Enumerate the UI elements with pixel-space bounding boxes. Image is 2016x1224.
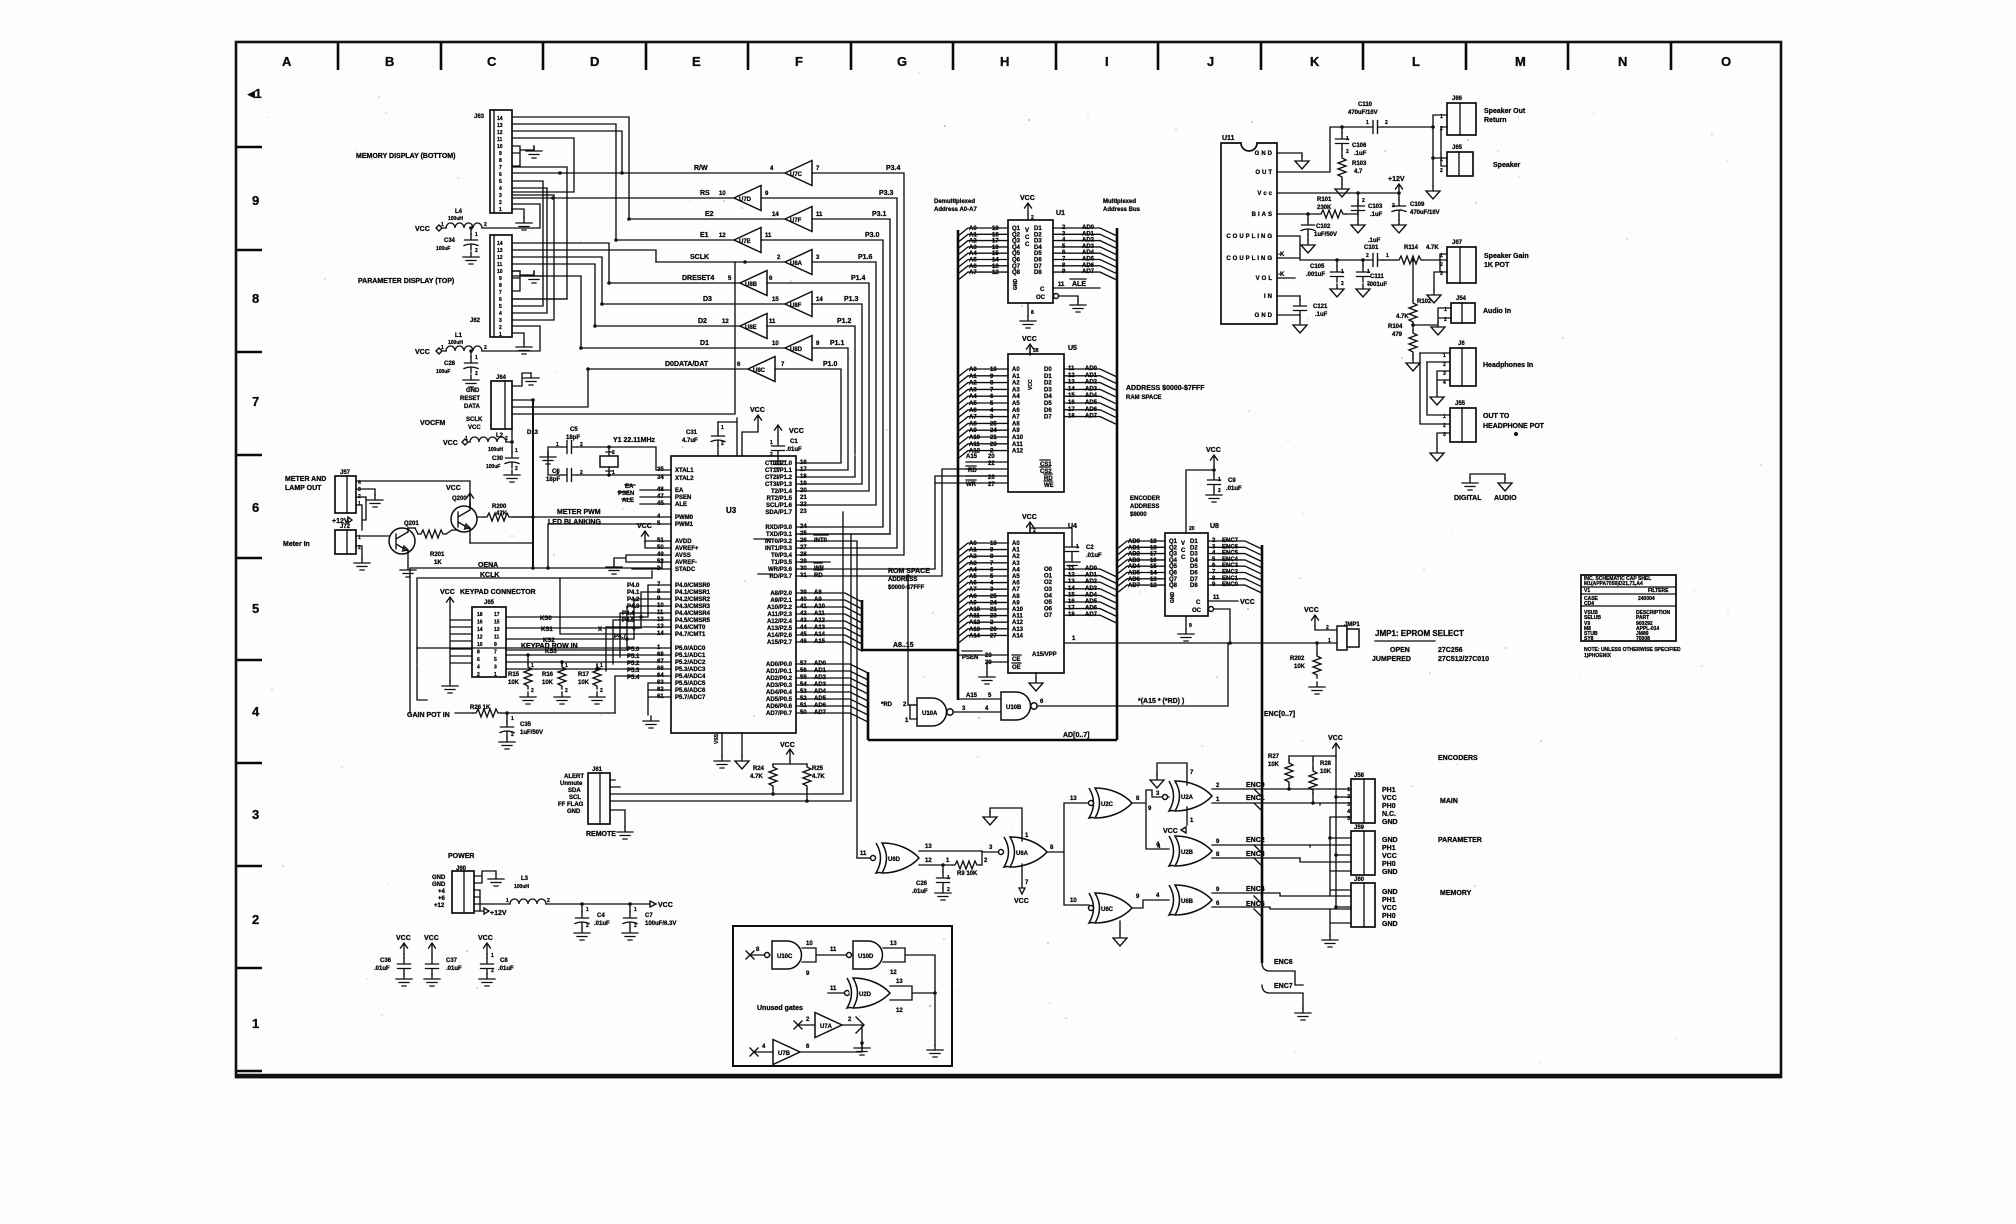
svg-text:PH0: PH0 bbox=[1382, 913, 1396, 920]
svg-text:P5.1/ADC1: P5.1/ADC1 bbox=[675, 653, 706, 659]
svg-text:D5: D5 bbox=[1044, 401, 1052, 407]
nand U10C bbox=[746, 951, 770, 959]
svg-text:18pF: 18pF bbox=[566, 435, 580, 441]
svg-text:U7C: U7C bbox=[790, 172, 803, 178]
svg-text:A7: A7 bbox=[969, 587, 977, 593]
svg-text:13: 13 bbox=[1070, 796, 1077, 802]
svg-text:D3: D3 bbox=[703, 296, 712, 303]
svg-text:GND: GND bbox=[1382, 869, 1398, 876]
svg-text:OE: OE bbox=[1012, 665, 1021, 671]
svg-text:PWM1: PWM1 bbox=[675, 522, 694, 528]
svg-text:AD5: AD5 bbox=[1082, 257, 1095, 263]
svg-text:Q4: Q4 bbox=[1169, 558, 1178, 564]
svg-text:VCC: VCC bbox=[1382, 853, 1397, 860]
capacitor C121 bbox=[1299, 296, 1301, 300]
svg-text:C: C bbox=[1025, 235, 1030, 241]
svg-text:14: 14 bbox=[497, 116, 503, 122]
svg-text:VCC: VCC bbox=[750, 407, 765, 414]
wire RD bbox=[796, 469, 990, 576]
svg-text:18: 18 bbox=[1150, 545, 1157, 551]
svg-text:VCC: VCC bbox=[1206, 447, 1221, 454]
buffer U7B bbox=[750, 1048, 773, 1056]
svg-text:*RD: *RD bbox=[881, 702, 893, 708]
svg-text:P1.4: P1.4 bbox=[851, 275, 866, 282]
svg-text:ENCODER: ENCODER bbox=[1130, 496, 1161, 502]
svg-text:C5: C5 bbox=[570, 427, 578, 433]
svg-text:VCC: VCC bbox=[637, 523, 652, 530]
port net labels bbox=[823, 165, 901, 368]
svg-text:12: 12 bbox=[477, 635, 483, 641]
xor U2C bbox=[1089, 788, 1132, 818]
svg-text:A0: A0 bbox=[969, 226, 977, 232]
svg-text:P4.4/CMSR4: P4.4/CMSR4 bbox=[675, 611, 711, 617]
svg-text:U2D: U2D bbox=[859, 992, 872, 998]
column letters bbox=[282, 54, 1731, 69]
svg-text:10K: 10K bbox=[508, 680, 520, 686]
svg-text:10: 10 bbox=[477, 642, 483, 648]
svg-text:A8..15: A8..15 bbox=[893, 642, 914, 649]
svg-text:ENC3: ENC3 bbox=[1222, 563, 1239, 569]
svg-text:A3: A3 bbox=[969, 245, 977, 251]
svg-text:VCC: VCC bbox=[789, 428, 804, 435]
svg-text:1: 1 bbox=[1347, 787, 1350, 793]
svg-text:11: 11 bbox=[765, 233, 772, 239]
svg-text:V1: V1 bbox=[1584, 588, 1590, 594]
svg-text:AD4: AD4 bbox=[1085, 592, 1098, 598]
svg-text:$0000-$7FFF: $0000-$7FFF bbox=[888, 585, 925, 591]
svg-text:P4.7: P4.7 bbox=[614, 634, 627, 640]
svg-text:14: 14 bbox=[497, 241, 503, 247]
wires U4 data bbox=[1064, 569, 1117, 623]
svg-text:D: D bbox=[590, 54, 599, 69]
svg-text:A3: A3 bbox=[1012, 387, 1020, 393]
svg-text:14: 14 bbox=[772, 212, 779, 218]
svg-text:6: 6 bbox=[499, 297, 502, 303]
svg-text:U7B: U7B bbox=[778, 1051, 791, 1057]
svg-text:ENC4: ENC4 bbox=[1222, 557, 1239, 563]
svg-text:20: 20 bbox=[988, 454, 995, 460]
svg-text:1K POT: 1K POT bbox=[1484, 262, 1510, 269]
svg-text:13: 13 bbox=[497, 123, 503, 129]
svg-text:CE: CE bbox=[1012, 657, 1020, 663]
svg-text:O6: O6 bbox=[1044, 607, 1053, 613]
svg-text:AD1/P0.1: AD1/P0.1 bbox=[766, 669, 793, 675]
svg-text:15: 15 bbox=[1150, 564, 1157, 570]
svg-text:10: 10 bbox=[497, 144, 503, 150]
svg-text:C30: C30 bbox=[492, 456, 504, 462]
svg-text:10: 10 bbox=[806, 941, 813, 947]
svg-text:R200: R200 bbox=[492, 504, 507, 510]
svg-text:U8C: U8C bbox=[753, 368, 766, 374]
svg-text:A4: A4 bbox=[1012, 567, 1020, 573]
svg-text:GND: GND bbox=[432, 875, 446, 881]
svg-text:AD2: AD2 bbox=[1082, 238, 1095, 244]
svg-text:16: 16 bbox=[1150, 558, 1157, 564]
svg-text:21: 21 bbox=[990, 607, 997, 613]
connector J64 bbox=[460, 375, 512, 431]
svg-text:U2A: U2A bbox=[1181, 795, 1194, 801]
svg-text:KEYPAD ROW IN: KEYPAD ROW IN bbox=[521, 643, 578, 650]
svg-text:U8F: U8F bbox=[790, 303, 802, 309]
svg-text:AVSS: AVSS bbox=[675, 553, 691, 559]
svg-text:J57: J57 bbox=[340, 470, 351, 476]
svg-text:A2: A2 bbox=[1012, 554, 1020, 560]
xor U2A bbox=[1169, 781, 1212, 811]
svg-text:A12: A12 bbox=[969, 620, 981, 626]
svg-text:KS1: KS1 bbox=[541, 627, 553, 633]
svg-text:11: 11 bbox=[830, 986, 837, 992]
svg-text:U7E: U7E bbox=[739, 239, 751, 245]
svg-text:Address Bus: Address Bus bbox=[1103, 207, 1141, 213]
svg-text:1uF/50V: 1uF/50V bbox=[520, 730, 543, 736]
capacitor C109 bbox=[1397, 191, 1401, 195]
svg-text:A5: A5 bbox=[1012, 574, 1020, 580]
buffer U7F bbox=[785, 207, 812, 232]
svg-text:O5: O5 bbox=[1044, 600, 1053, 606]
svg-text:23: 23 bbox=[990, 614, 997, 620]
capacitor C34 bbox=[436, 226, 479, 264]
row ticks bbox=[236, 147, 262, 1071]
svg-text:1: 1 bbox=[634, 907, 637, 913]
svg-text:J60: J60 bbox=[1354, 877, 1365, 883]
svg-text:-K: -K bbox=[1278, 252, 1285, 258]
xor U6D bbox=[876, 843, 919, 873]
svg-text:10K: 10K bbox=[1268, 762, 1280, 768]
svg-text:4.7K: 4.7K bbox=[750, 774, 763, 780]
svg-text:◂1: ◂1 bbox=[247, 86, 262, 101]
svg-text:R102: R102 bbox=[1417, 299, 1432, 305]
buffer U8A bbox=[785, 250, 812, 275]
svg-text:A9: A9 bbox=[1012, 428, 1020, 434]
svg-text:G: G bbox=[897, 54, 907, 69]
svg-text:100uF: 100uF bbox=[436, 369, 450, 375]
svg-text:AD2: AD2 bbox=[1085, 380, 1098, 386]
svg-text:L3: L3 bbox=[521, 876, 529, 882]
svg-text:VCC: VCC bbox=[780, 742, 795, 749]
svg-text:VCC: VCC bbox=[443, 440, 458, 447]
svg-text:1: 1 bbox=[565, 663, 568, 669]
svg-text:D0: D0 bbox=[1044, 367, 1052, 373]
svg-text:A1: A1 bbox=[969, 232, 977, 238]
svg-text:2: 2 bbox=[1443, 362, 1446, 368]
svg-text:PSEN: PSEN bbox=[962, 655, 978, 661]
svg-text:P1.0: P1.0 bbox=[823, 361, 838, 368]
svg-text:C36: C36 bbox=[380, 958, 392, 964]
svg-text:13: 13 bbox=[925, 844, 932, 850]
J62 ground stub pins 10-8 bbox=[512, 271, 527, 291]
svg-text:FF FLAG: FF FLAG bbox=[558, 802, 584, 808]
svg-text:K: K bbox=[1310, 54, 1320, 69]
svg-text:AD0: AD0 bbox=[1082, 225, 1095, 231]
svg-text:PWM0: PWM0 bbox=[675, 515, 694, 521]
svg-text:C106: C106 bbox=[1352, 143, 1367, 149]
wires U5 address inputs bbox=[958, 369, 1008, 459]
svg-text:A9: A9 bbox=[969, 600, 977, 606]
svg-text:P4.2/CMSR2: P4.2/CMSR2 bbox=[675, 597, 711, 603]
xor U6C bbox=[1089, 893, 1132, 923]
svg-text:B: B bbox=[385, 54, 394, 69]
svg-text:12: 12 bbox=[1068, 373, 1075, 379]
svg-text:AD1: AD1 bbox=[1085, 373, 1098, 379]
gnd pin1 bbox=[1277, 153, 1302, 156]
svg-text:17: 17 bbox=[1068, 606, 1075, 612]
svg-text:100uH: 100uH bbox=[488, 447, 503, 453]
svg-text:12: 12 bbox=[497, 255, 503, 261]
svg-text:VCC: VCC bbox=[1240, 599, 1255, 606]
nand U10D bbox=[847, 953, 852, 958]
svg-text:P3.1: P3.1 bbox=[872, 211, 887, 218]
svg-text:SCL/P1.6: SCL/P1.6 bbox=[766, 503, 793, 509]
svg-text:C7: C7 bbox=[645, 913, 653, 919]
svg-text:C35: C35 bbox=[520, 722, 532, 728]
svg-text:U7D: U7D bbox=[739, 197, 752, 203]
svg-text:PSEN: PSEN bbox=[675, 495, 691, 501]
svg-text:VCC: VCC bbox=[424, 935, 439, 942]
svg-text:WE: WE bbox=[1044, 483, 1054, 489]
svg-text:5: 5 bbox=[499, 304, 502, 310]
out net bbox=[1277, 127, 1368, 172]
svg-text:REMOTE: REMOTE bbox=[586, 831, 616, 838]
svg-text:1: 1 bbox=[494, 672, 497, 678]
buffer U8F bbox=[785, 292, 812, 317]
svg-text:19: 19 bbox=[992, 226, 999, 232]
svg-text:P3.0: P3.0 bbox=[865, 232, 880, 239]
svg-text:1: 1 bbox=[475, 232, 478, 238]
svg-text:L2: L2 bbox=[496, 433, 504, 439]
svg-text:12: 12 bbox=[497, 130, 503, 136]
svg-text:P4.5: P4.5 bbox=[622, 618, 635, 624]
svg-text:VCC: VCC bbox=[1022, 514, 1037, 521]
svg-text:CT2I/P1.2: CT2I/P1.2 bbox=[765, 475, 793, 481]
svg-text:.01uF: .01uF bbox=[1226, 486, 1242, 492]
svg-text:RESET: RESET bbox=[460, 396, 480, 402]
svg-text:C121: C121 bbox=[1313, 304, 1328, 310]
svg-text:AD3: AD3 bbox=[1128, 558, 1141, 564]
svg-text:Speaker: Speaker bbox=[1493, 162, 1521, 169]
capacitor C111 bbox=[1361, 258, 1365, 262]
svg-text:+4: +4 bbox=[438, 889, 446, 895]
svg-text:12: 12 bbox=[1150, 583, 1157, 589]
svg-text:JMP1: EPROM SELECT: JMP1: EPROM SELECT bbox=[1375, 629, 1464, 638]
svg-text:Q2: Q2 bbox=[1169, 545, 1178, 551]
svg-text:MEMORY: MEMORY bbox=[1440, 890, 1472, 897]
svg-text:C37: C37 bbox=[446, 958, 458, 964]
svg-text:O1: O1 bbox=[1044, 574, 1053, 580]
svg-text:A8: A8 bbox=[969, 594, 977, 600]
svg-text:U8A: U8A bbox=[790, 261, 803, 267]
svg-text:OC: OC bbox=[1192, 608, 1202, 614]
svg-text:C: C bbox=[1040, 287, 1045, 293]
svg-text:25: 25 bbox=[990, 594, 997, 600]
J63 pin1 ground bbox=[512, 209, 524, 218]
svg-text:D1: D1 bbox=[1044, 374, 1052, 380]
svg-text:ENC7: ENC7 bbox=[1222, 538, 1239, 544]
svg-text:22: 22 bbox=[988, 461, 995, 467]
svg-text:C1: C1 bbox=[790, 439, 798, 445]
svg-text:D8: D8 bbox=[1034, 270, 1042, 276]
svg-text:A11/P2.3: A11/P2.3 bbox=[767, 612, 792, 618]
svg-text:PH0: PH0 bbox=[1382, 803, 1396, 810]
svg-text:X: X bbox=[598, 627, 602, 633]
svg-text:C101: C101 bbox=[1364, 245, 1379, 251]
svg-text:ENC7: ENC7 bbox=[1274, 983, 1293, 990]
svg-text:J72: J72 bbox=[340, 524, 351, 530]
svg-text:12: 12 bbox=[722, 319, 729, 325]
svg-text:P5.1: P5.1 bbox=[627, 654, 640, 660]
svg-text:A10/P2.2: A10/P2.2 bbox=[767, 605, 793, 611]
svg-text:10: 10 bbox=[1070, 898, 1077, 904]
svg-text:C2: C2 bbox=[1086, 545, 1094, 551]
svg-text:A8: A8 bbox=[969, 421, 977, 427]
svg-text:11: 11 bbox=[860, 851, 867, 857]
svg-text:2: 2 bbox=[1218, 488, 1221, 494]
svg-text:13: 13 bbox=[890, 941, 897, 947]
svg-text:L4: L4 bbox=[455, 209, 463, 215]
svg-text:VSS: VSS bbox=[714, 733, 720, 744]
svg-text:INT1/P3.3: INT1/P3.3 bbox=[765, 546, 793, 552]
connector J62 bbox=[470, 235, 512, 338]
svg-text:1)PHOENIX: 1)PHOENIX bbox=[1584, 653, 1612, 659]
svg-text:27: 27 bbox=[800, 545, 807, 551]
svg-text:.01uF: .01uF bbox=[786, 447, 802, 453]
svg-text:D5: D5 bbox=[1190, 564, 1198, 570]
svg-text:AD0: AD0 bbox=[1085, 566, 1098, 572]
svg-text:Q1: Q1 bbox=[1012, 226, 1021, 232]
svg-text:AD6: AD6 bbox=[1085, 407, 1098, 413]
svg-text:26: 26 bbox=[988, 475, 995, 481]
svg-text:18pF: 18pF bbox=[546, 477, 560, 483]
svg-text:.01uF: .01uF bbox=[594, 921, 610, 927]
svg-text:T0/P3.4: T0/P3.4 bbox=[771, 553, 793, 559]
buffer U7C bbox=[785, 161, 812, 186]
svg-text:U10C: U10C bbox=[777, 954, 793, 960]
svg-text:RS: RS bbox=[700, 190, 710, 197]
svg-text:C109: C109 bbox=[1410, 202, 1425, 208]
svg-text:A5: A5 bbox=[969, 574, 977, 580]
svg-text:Y1 22.11MHz: Y1 22.11MHz bbox=[613, 437, 656, 444]
svg-text:P4.0/CMSR0: P4.0/CMSR0 bbox=[675, 583, 711, 589]
svg-text:C34: C34 bbox=[444, 238, 456, 244]
svg-text:*(A15 * (*RD) ): *(A15 * (*RD) ) bbox=[1138, 698, 1184, 705]
svg-text:27: 27 bbox=[988, 482, 995, 488]
svg-text:A15: A15 bbox=[966, 693, 978, 699]
ground crystal bbox=[548, 447, 562, 452]
J62 pin1 ground bbox=[512, 333, 524, 342]
svg-text:U6B: U6B bbox=[1181, 899, 1194, 905]
svg-text:ENC2: ENC2 bbox=[1246, 837, 1265, 844]
svg-text:4.7uF: 4.7uF bbox=[682, 438, 698, 444]
svg-text:11: 11 bbox=[497, 262, 503, 268]
svg-text:P4.5/CMSR5: P4.5/CMSR5 bbox=[675, 618, 711, 624]
svg-text:11: 11 bbox=[1058, 282, 1065, 288]
svg-text:26: 26 bbox=[990, 627, 997, 633]
svg-text:A1: A1 bbox=[969, 548, 977, 554]
svg-text:P3.4: P3.4 bbox=[886, 165, 901, 172]
svg-text:7: 7 bbox=[252, 394, 259, 409]
svg-text:T1/P3.5: T1/P3.5 bbox=[771, 560, 793, 566]
svg-text:10: 10 bbox=[719, 191, 726, 197]
svg-text:COUPLING: COUPLING bbox=[1226, 234, 1274, 240]
svg-text:A7: A7 bbox=[969, 415, 977, 421]
svg-text:Speaker Gain: Speaker Gain bbox=[1484, 253, 1529, 260]
svg-text:AUDIO: AUDIO bbox=[1494, 495, 1517, 502]
svg-text:240004: 240004 bbox=[1638, 596, 1655, 602]
svg-text:J59: J59 bbox=[1354, 825, 1365, 831]
svg-text:VCC: VCC bbox=[1028, 379, 1034, 390]
svg-text:TXD/P3.1: TXD/P3.1 bbox=[766, 532, 793, 538]
svg-text:A4: A4 bbox=[969, 567, 977, 573]
svg-text:RD/P3.7: RD/P3.7 bbox=[769, 574, 792, 580]
svg-text:GND: GND bbox=[466, 388, 480, 394]
svg-text:A4: A4 bbox=[1012, 394, 1020, 400]
svg-text:U7A: U7A bbox=[820, 1024, 833, 1030]
svg-text:15: 15 bbox=[992, 251, 999, 257]
svg-text:U10B: U10B bbox=[1006, 705, 1022, 711]
svg-text:A4: A4 bbox=[969, 251, 977, 257]
svg-text:1: 1 bbox=[586, 907, 589, 913]
svg-text:R17: R17 bbox=[578, 672, 590, 678]
svg-text:GND: GND bbox=[1255, 151, 1274, 157]
svg-text:VCC: VCC bbox=[1382, 905, 1397, 912]
svg-text:470uF/16V: 470uF/16V bbox=[1410, 210, 1440, 216]
svg-text:P4.7/CMT1: P4.7/CMT1 bbox=[675, 632, 706, 638]
svg-text:230K: 230K bbox=[1317, 205, 1332, 211]
svg-text:.01uF: .01uF bbox=[446, 966, 462, 972]
svg-text:1: 1 bbox=[1366, 120, 1369, 126]
svg-text:R114: R114 bbox=[1404, 245, 1419, 251]
svg-text:COUPLING: COUPLING bbox=[1226, 256, 1274, 262]
svg-text:ADDRESS: ADDRESS bbox=[1130, 504, 1159, 510]
svg-text:AD6: AD6 bbox=[1128, 577, 1141, 583]
svg-text:U2C: U2C bbox=[1101, 802, 1114, 808]
svg-text:12: 12 bbox=[992, 270, 999, 276]
svg-text:8: 8 bbox=[499, 283, 502, 289]
svg-text:A8: A8 bbox=[1012, 594, 1020, 600]
svg-text:10: 10 bbox=[990, 541, 997, 547]
svg-text:U11: U11 bbox=[1222, 135, 1235, 142]
svg-text:21: 21 bbox=[800, 495, 807, 501]
svg-text:2: 2 bbox=[515, 466, 518, 472]
svg-text:100uH: 100uH bbox=[514, 884, 529, 890]
svg-text:L: L bbox=[1412, 54, 1420, 69]
svg-text:D2: D2 bbox=[1034, 232, 1042, 238]
svg-text:GND: GND bbox=[1382, 921, 1398, 928]
svg-text:8: 8 bbox=[499, 158, 502, 164]
svg-text:GND: GND bbox=[567, 809, 581, 815]
inductor L1 bbox=[415, 326, 540, 356]
svg-text:.01uF: .01uF bbox=[374, 966, 390, 972]
svg-text:A10: A10 bbox=[1012, 435, 1024, 441]
svg-text:O3: O3 bbox=[1044, 587, 1053, 593]
svg-text:22: 22 bbox=[800, 502, 807, 508]
svg-text:15: 15 bbox=[772, 297, 779, 303]
svg-text:ALE: ALE bbox=[675, 502, 687, 508]
svg-text:A10: A10 bbox=[1012, 607, 1024, 613]
svg-text:Q3: Q3 bbox=[1169, 552, 1178, 558]
svg-text:ENCODERS: ENCODERS bbox=[1438, 755, 1478, 762]
svg-text:4.7K: 4.7K bbox=[1426, 245, 1439, 251]
svg-text:AD3: AD3 bbox=[1082, 244, 1095, 250]
svg-text:O4: O4 bbox=[1044, 593, 1053, 599]
svg-text:LED BLANKING: LED BLANKING bbox=[548, 519, 601, 526]
svg-text:R201: R201 bbox=[430, 552, 445, 558]
svg-text:A0: A0 bbox=[969, 367, 977, 373]
svg-text:Speaker Out: Speaker Out bbox=[1484, 108, 1526, 115]
svg-text:I: I bbox=[1105, 54, 1109, 69]
svg-text:R16: R16 bbox=[542, 672, 554, 678]
wire J64 SCLK going right bbox=[512, 262, 735, 414]
svg-text:10K: 10K bbox=[578, 680, 590, 686]
